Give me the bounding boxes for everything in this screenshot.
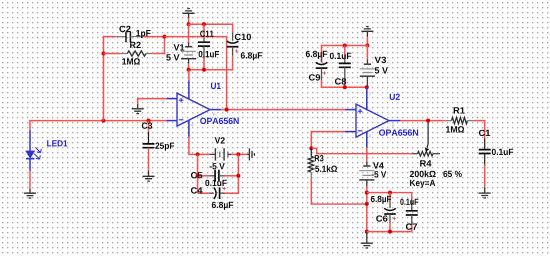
LED1 label xyxy=(47,140,67,146)
wire LED1 cathode to ground xyxy=(29,171,31,190)
U1 non-inverting input stub xyxy=(167,98,178,100)
U2 non-inverting input stub xyxy=(345,109,356,111)
R4 key xyxy=(410,180,435,188)
V1 value 5 V xyxy=(166,54,179,60)
wire C5/C4 left column xyxy=(197,154,199,193)
node at feedback left column xyxy=(102,119,106,123)
V4 value -5 V xyxy=(372,171,387,177)
wire feedback left column xyxy=(103,36,105,121)
V4 label xyxy=(373,162,384,168)
C7 value 0.1uF xyxy=(400,199,418,205)
C6 value 6.8uF xyxy=(371,196,391,204)
junction output to R4 wiper xyxy=(426,119,430,123)
C9 value 6.8uF xyxy=(306,51,327,59)
wire U2 output xyxy=(400,120,445,122)
wire +5V rail xyxy=(188,69,233,71)
wire V4 to ground with taps xyxy=(366,187,368,232)
V2 value -5 V xyxy=(210,163,225,169)
U1 label xyxy=(211,83,221,89)
R3 label xyxy=(315,155,324,161)
R4 percent setting xyxy=(443,171,461,177)
V3 value 5 V xyxy=(375,67,388,73)
resistor R2 1Mohm xyxy=(104,53,121,55)
C4 label xyxy=(191,187,203,193)
wire feedback to U1 output xyxy=(165,36,228,38)
junction R3 return xyxy=(365,202,369,206)
C4 value 6.8uF xyxy=(212,202,233,210)
R2 value 1Mohm xyxy=(122,58,140,64)
C2 label xyxy=(119,26,130,32)
wire U2 inverting input to R3 xyxy=(311,131,346,133)
C1 label xyxy=(479,130,490,136)
wire C6/C7 top rail xyxy=(367,193,412,199)
U1 V+ pin xyxy=(188,81,190,100)
junction C5/C4 right column top xyxy=(236,152,240,156)
LED1 photodiode xyxy=(29,121,31,131)
ground below C3 xyxy=(143,171,155,181)
V1 label xyxy=(174,44,185,50)
op-amp U1 OPA656N xyxy=(177,93,210,126)
junction U1 output feedback tap xyxy=(225,108,229,112)
U1 V- pin xyxy=(188,120,190,137)
U2 V+ pin xyxy=(366,87,368,110)
U2 pin numbers xyxy=(340,111,342,115)
junction V3 ground rail xyxy=(365,44,369,48)
U2 output stub xyxy=(389,120,400,122)
capacitor C7 0.1uF xyxy=(411,199,413,211)
wire ground rail left to C9 xyxy=(321,45,368,47)
battery V1 5V xyxy=(188,24,190,42)
R4 wiper arrow xyxy=(427,121,428,148)
junction C11 top xyxy=(202,22,206,26)
C4 polarity mark xyxy=(223,187,226,190)
junction C6 bottom xyxy=(388,230,392,234)
capacitor C5 0.1uF xyxy=(198,175,210,177)
junction C6 top xyxy=(388,191,392,195)
capacitor C9 6.8uF electrolytic xyxy=(321,57,323,62)
wire LED1 anode to inverting input of U1 xyxy=(29,120,31,121)
battery V4 -5V xyxy=(366,148,368,162)
U1 part name OPA656N xyxy=(200,118,239,124)
C10 polarity mark xyxy=(235,49,238,52)
op-amp U2 OPA656N xyxy=(356,104,389,137)
ground right of V2 xyxy=(247,148,254,160)
R1 label xyxy=(454,107,465,113)
C3 label xyxy=(142,122,152,128)
wire jog to R4 xyxy=(311,148,412,153)
wire R3 bottom to ground node xyxy=(311,180,367,204)
C9 label xyxy=(309,74,320,80)
wire C5/C4 right column xyxy=(237,154,239,193)
C5 value 0.1uF xyxy=(205,180,226,186)
wire C6/C7 bottom rail xyxy=(367,231,413,233)
U2 inverting input stub xyxy=(345,131,356,133)
junction ground rail left xyxy=(187,22,191,26)
resistor R4 200kohm potentiometer xyxy=(413,153,418,155)
junction R2 left xyxy=(102,52,106,56)
R2 label xyxy=(130,42,141,48)
U1 output stub xyxy=(210,109,221,111)
R4 value 200kohm xyxy=(410,170,436,177)
capacitor C3 25pF xyxy=(148,121,150,132)
junction decoupling rail bottom xyxy=(365,230,369,234)
R4 label xyxy=(420,160,431,166)
C1 value 0.1uF xyxy=(492,149,513,155)
U2 label xyxy=(390,94,400,100)
capacitor C4 6.8uF electrolytic xyxy=(198,192,210,194)
LED1 emission arrows xyxy=(35,147,41,152)
C8 value 0.1uF xyxy=(330,53,351,59)
ground below LED1 xyxy=(24,189,36,198)
C10 value 6.8uF xyxy=(241,52,262,60)
junction V1 plus xyxy=(187,68,191,72)
ground below V4 xyxy=(361,232,373,248)
C8 label xyxy=(335,78,346,84)
C9 polarity mark xyxy=(323,71,326,74)
capacitor C8 0.1uF xyxy=(344,46,346,60)
C11 value 0.1uF xyxy=(199,51,219,57)
battery V2 -5V horizontal xyxy=(210,153,216,155)
junction C11 bottom xyxy=(202,68,206,72)
capacitor C6 6.8uF electrolytic xyxy=(389,193,391,200)
junction feedback top right xyxy=(163,35,167,39)
wire U1 output xyxy=(221,109,345,111)
U1 inverting input stub xyxy=(167,120,178,122)
R3 value 5.1kohm xyxy=(315,165,337,172)
junction R3 top xyxy=(309,146,313,150)
C2 value 1pF xyxy=(136,30,150,38)
junction C8 bottom xyxy=(343,85,347,89)
node at C3 tap xyxy=(147,119,151,123)
junction V3 plus to U2 V+ xyxy=(365,85,369,89)
C10 label xyxy=(235,34,251,40)
U1 pin numbers xyxy=(162,100,164,104)
V3 label xyxy=(375,57,387,63)
capacitor C2 1pF xyxy=(103,36,116,38)
junction decoupling rail top xyxy=(365,191,369,195)
junction C8 top xyxy=(343,44,347,48)
C6 polarity mark xyxy=(393,217,396,220)
ground above V1 xyxy=(183,9,195,18)
resistor R3 5.1kohm vertical xyxy=(310,148,312,156)
ground above V3 xyxy=(361,27,373,38)
capacitor C10 6.8uF electrolytic xyxy=(232,24,234,33)
capacitor C1 0.1uF xyxy=(484,121,486,139)
C3 value 25pF xyxy=(155,143,174,151)
wire +5V rail U2 xyxy=(321,86,368,88)
wire feedback right column xyxy=(164,36,166,54)
C11 label xyxy=(200,31,213,37)
ground below C1 xyxy=(479,187,491,198)
ground at U1 non-inverting input xyxy=(137,98,139,105)
V2 label xyxy=(215,137,225,143)
C6 label xyxy=(376,215,387,221)
C7 label xyxy=(406,223,417,229)
C5 label xyxy=(191,172,202,178)
capacitor C11 0.1uF xyxy=(203,24,205,38)
U2 part name OPA656N xyxy=(379,129,418,135)
resistor R1 1Mohm xyxy=(446,120,452,122)
junction C5/C4 left column top xyxy=(196,152,200,156)
R1 value 1Mohm xyxy=(446,126,464,132)
U2 V- pin xyxy=(366,131,368,147)
battery V3 5V xyxy=(366,46,368,60)
wire U1 V- to V2 xyxy=(188,137,190,155)
wire ground rail to C10 xyxy=(189,23,234,25)
